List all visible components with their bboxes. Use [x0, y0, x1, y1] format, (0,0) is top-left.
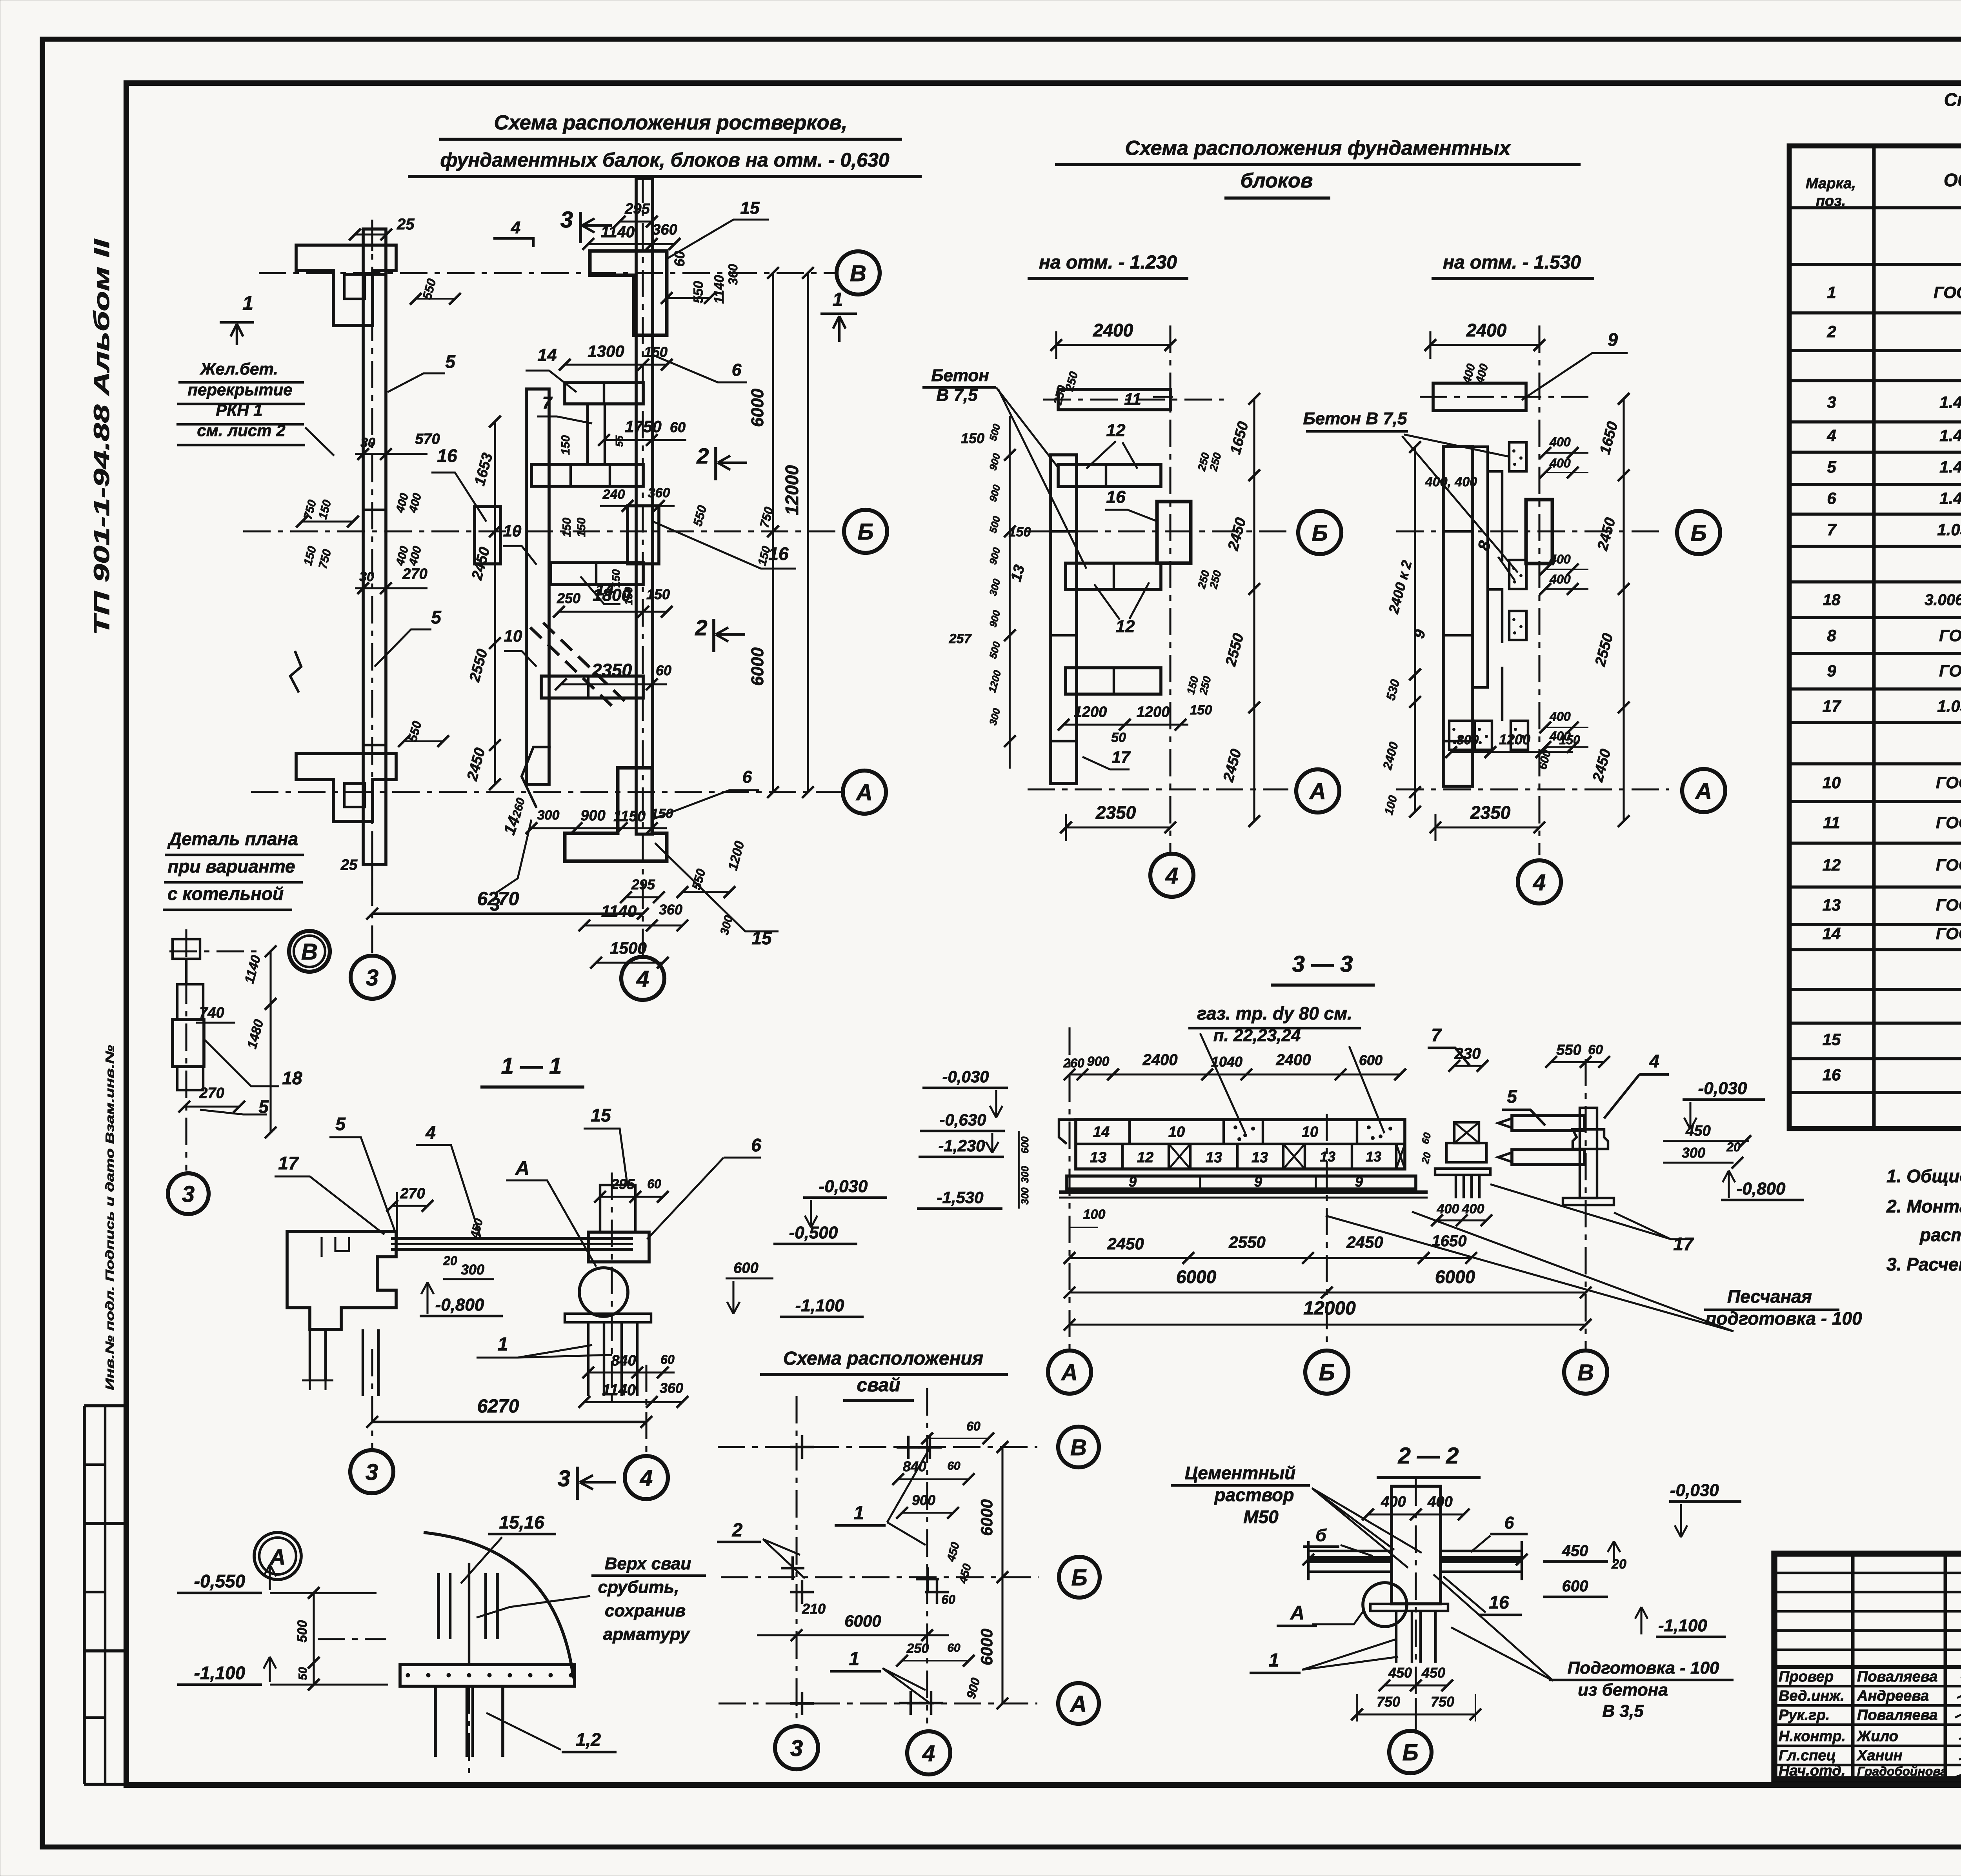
label 10 upper: [503, 546, 537, 565]
svg-text:13: 13: [1252, 1149, 1268, 1166]
svg-text:1: 1: [833, 289, 843, 310]
rostverk 15 top T-shape: [590, 251, 667, 335]
svg-text:600: 600: [1359, 1052, 1383, 1068]
svg-text:6: 6: [742, 767, 752, 787]
svg-text:Бетон: Бетон: [931, 366, 989, 385]
plan1 left strip: [1051, 455, 1077, 783]
svg-text:1140: 1140: [602, 1382, 636, 1399]
svg-text:60: 60: [966, 1419, 980, 1433]
svg-text:Жел.бет.: Жел.бет.: [200, 360, 278, 378]
plan2 dim 2400: [1430, 344, 1539, 346]
svg-text:1200: 1200: [1499, 731, 1530, 747]
1-1 dims 295/60: [600, 1196, 663, 1198]
svg-text:на отм. - 1.230: на отм. - 1.230: [1039, 252, 1177, 273]
svg-text:3: 3: [560, 207, 573, 233]
break mark on left wall: [290, 651, 301, 693]
svg-text:Бетон В 7,5: Бетон В 7,5: [1303, 409, 1407, 428]
svg-text:А: А: [855, 780, 873, 805]
svg-text:-1,100: -1,100: [194, 1663, 246, 1683]
svg-text:ГОСТ 13579 - 78*: ГОСТ 13579 - 78*: [1936, 856, 1961, 874]
svg-text:2350: 2350: [1095, 802, 1136, 823]
svg-text:4: 4: [1649, 1051, 1659, 1071]
svg-text:50: 50: [297, 1667, 309, 1680]
svg-text:Гл.спец: Гл.спец: [1779, 1747, 1836, 1764]
svg-text:1.415 - 1, вып. 1: 1.415 - 1, вып. 1: [1939, 458, 1961, 476]
svg-text:7: 7: [1827, 520, 1837, 539]
label 6 right: [653, 355, 747, 382]
svg-text:25: 25: [397, 216, 415, 233]
svg-text:6: 6: [1504, 1513, 1514, 1532]
svg-text:ГОСТ 13580 - 85: ГОСТ 13580 - 85: [1939, 626, 1961, 645]
pier1 label 7: [1428, 1048, 1470, 1066]
svg-text:300: 300: [1682, 1145, 1705, 1161]
svg-text:60: 60: [947, 1460, 960, 1472]
title block upper small rows (left): [1774, 1572, 1961, 1574]
svg-text:300: 300: [461, 1262, 484, 1278]
grid line V: [259, 272, 835, 274]
label 14: [526, 371, 577, 392]
svg-text:3: 3: [558, 1466, 570, 1491]
plan2 circle 4: [1518, 860, 1561, 903]
pile plan grid V: [718, 1446, 1037, 1448]
svg-text:-1,100: -1,100: [1658, 1616, 1707, 1635]
svg-text:1200: 1200: [1137, 704, 1170, 720]
plan2 right dim chain: [1623, 399, 1624, 821]
3-3 left end hook: [1059, 1120, 1076, 1144]
svg-text:18: 18: [282, 1068, 302, 1088]
pier2 labels 5 and 4: [1502, 1110, 1545, 1125]
svg-text:12: 12: [1116, 617, 1135, 636]
label 14 bottom: [522, 747, 551, 808]
3-3 top row cells: [1128, 1120, 1131, 1144]
detail circle V: [289, 931, 330, 972]
svg-text:10: 10: [1823, 773, 1841, 792]
labels 5: [387, 373, 445, 392]
plan1 circle A: [1296, 769, 1339, 813]
plan2 left chain: [1414, 447, 1416, 812]
svg-text:230: 230: [1454, 1045, 1481, 1062]
svg-text:740: 740: [199, 1005, 224, 1021]
svg-text:1: 1: [498, 1334, 508, 1355]
detail axis: [185, 929, 187, 1171]
svg-text:из бетона: из бетона: [1578, 1680, 1668, 1700]
svg-text:1: 1: [1269, 1650, 1279, 1671]
svg-text:600: 600: [1562, 1578, 1588, 1595]
svg-text:20: 20: [443, 1254, 457, 1268]
svg-text:150: 150: [559, 435, 572, 455]
label 15 bottom: [655, 843, 779, 931]
svg-text:18: 18: [1823, 591, 1841, 609]
detail blocks: [173, 939, 200, 959]
svg-text:5: 5: [1827, 458, 1836, 476]
svg-text:А: А: [1070, 1691, 1087, 1717]
1-1 label 1: [477, 1345, 612, 1358]
svg-text:ГОСТ 13579 - 78*: ГОСТ 13579 - 78*: [1936, 813, 1961, 832]
svg-text:10: 10: [503, 522, 522, 540]
svg-text:7: 7: [542, 393, 553, 413]
svg-text:12000: 12000: [1303, 1298, 1356, 1319]
axis circle 4: [621, 957, 664, 1000]
svg-text:-0,630: -0,630: [939, 1111, 986, 1129]
svg-text:5: 5: [258, 1096, 269, 1117]
plan2 block right: [1526, 500, 1552, 564]
svg-text:800: 800: [1457, 733, 1479, 747]
piles below slab: [434, 1686, 437, 1757]
svg-text:Инв.№ подл. Подпись и дато В: Инв.№ подл. Подпись и дато Взам.инв.№: [104, 1045, 116, 1390]
cut arc: [424, 1532, 573, 1678]
svg-text:6000: 6000: [748, 647, 767, 686]
svg-text:3 — 3: 3 — 3: [1292, 951, 1353, 977]
svg-text:15: 15: [591, 1105, 611, 1125]
svg-text:Н.контр.: Н.контр.: [1779, 1728, 1846, 1745]
svg-text:4: 4: [425, 1122, 436, 1143]
svg-text:2: 2: [696, 444, 709, 468]
svg-text:400: 400: [1549, 572, 1571, 586]
margin cell boxes: [84, 1404, 126, 1407]
axis circle 3: [351, 956, 394, 999]
svg-text:10: 10: [504, 627, 522, 645]
pile plan axis 3: [795, 1396, 797, 1721]
plan2 label 9: [1522, 353, 1628, 400]
svg-text:900: 900: [1087, 1054, 1110, 1069]
svg-text:360: 360: [648, 485, 670, 500]
svg-text:6000: 6000: [748, 389, 767, 427]
svg-text:400: 400: [1549, 709, 1571, 723]
label 6 lower: [652, 790, 759, 820]
svg-text:15: 15: [740, 198, 760, 218]
svg-text:Ханин: Ханин: [1856, 1747, 1903, 1764]
dotted cell marks: [1234, 1126, 1237, 1129]
svg-text:750: 750: [1377, 1694, 1400, 1710]
plan2 circle A: [1682, 769, 1725, 812]
svg-text:550: 550: [1556, 1042, 1581, 1058]
svg-text:1: 1: [849, 1649, 860, 1669]
vertical dim 500/50: [313, 1593, 315, 1685]
pile plan circle 3: [775, 1726, 818, 1769]
svg-text:260: 260: [1063, 1056, 1084, 1070]
svg-text:1 — 1: 1 — 1: [501, 1053, 562, 1079]
svg-text:Градобойнова: Градобойнова: [1857, 1764, 1947, 1778]
axis-4 wall: [636, 178, 653, 834]
svg-text:2400: 2400: [1142, 1051, 1178, 1069]
svg-text:Жило: Жило: [1856, 1728, 1898, 1745]
svg-text:3: 3: [182, 1182, 195, 1207]
svg-text:Деталь плана: Деталь плана: [167, 829, 298, 849]
svg-text:1750: 1750: [625, 417, 661, 436]
svg-text:60: 60: [656, 662, 671, 678]
svg-text:2 — 2: 2 — 2: [1398, 1443, 1459, 1469]
svg-text:А: А: [1290, 1602, 1304, 1624]
svg-text:30: 30: [359, 569, 374, 584]
svg-text:4: 4: [1826, 426, 1836, 445]
svg-text:6000: 6000: [1176, 1267, 1217, 1287]
svg-text:750: 750: [1431, 1694, 1454, 1710]
svg-text:-0,550: -0,550: [194, 1571, 246, 1591]
svg-text:1500: 1500: [610, 939, 646, 957]
svg-text:295: 295: [611, 1176, 635, 1192]
svg-text:14: 14: [1823, 924, 1841, 943]
svg-text:11: 11: [1124, 390, 1141, 408]
1-1 labels: [275, 1176, 384, 1234]
pile base slab: [400, 1665, 575, 1686]
svg-text:9: 9: [1129, 1174, 1137, 1190]
pile plan circle 4: [907, 1731, 950, 1774]
svg-text:10: 10: [1168, 1124, 1185, 1140]
svg-text:16: 16: [437, 445, 457, 466]
svg-text:2350: 2350: [1470, 802, 1511, 823]
diagonal dashed braces: [530, 627, 612, 706]
spec table grid: [1789, 146, 1961, 1129]
3-3 axis B: [1326, 1114, 1328, 1349]
svg-text:60: 60: [947, 1641, 960, 1654]
svg-text:В: В: [1070, 1435, 1087, 1460]
svg-text:250: 250: [906, 1641, 929, 1656]
svg-text:2: 2: [695, 615, 707, 640]
svg-text:1: 1: [242, 292, 253, 314]
svg-text:2: 2: [732, 1520, 743, 1541]
dim 2350/60: [561, 683, 667, 685]
svg-text:2400: 2400: [1276, 1051, 1311, 1069]
svg-text:17: 17: [1112, 748, 1131, 766]
svg-text:б: б: [1315, 1526, 1327, 1545]
1-1 right assembly: [600, 1185, 635, 1232]
grid line B: [243, 530, 842, 532]
plan -1.530 grid A: [1396, 788, 1669, 790]
svg-text:арматуру: арматуру: [603, 1625, 691, 1644]
detail second circle ring: [294, 936, 325, 967]
3-3 block band: [1076, 1120, 1405, 1169]
svg-text:17: 17: [1673, 1234, 1694, 1254]
svg-text:А: А: [1309, 779, 1326, 804]
svg-text:-0,500: -0,500: [789, 1223, 838, 1242]
3-3 pier 1: [1454, 1122, 1479, 1143]
svg-text:2400: 2400: [1466, 320, 1507, 340]
svg-text:1.415 - 1, вып. 1: 1.415 - 1, вып. 1: [1939, 426, 1961, 445]
title block outer: [1774, 1554, 1961, 1779]
svg-text:150: 150: [1009, 525, 1031, 540]
svg-text:1140: 1140: [601, 224, 635, 241]
svg-text:3: 3: [366, 1460, 378, 1485]
svg-text:-0,030: -0,030: [1698, 1079, 1747, 1098]
plan2 circle B: [1677, 511, 1720, 554]
svg-text:поз.: поз.: [1816, 193, 1846, 209]
svg-text:15,16: 15,16: [499, 1512, 544, 1532]
plan1 right dim chain: [1253, 399, 1255, 821]
plan2 top bar: [1433, 383, 1526, 411]
svg-text:1.415 - 1, вып. 1: 1.415 - 1, вып. 1: [1939, 489, 1961, 507]
3-3 top dim chain: [1070, 1073, 1400, 1075]
3-3 leaders from gas label: [1200, 1033, 1384, 1133]
svg-text:-1,100: -1,100: [795, 1296, 844, 1315]
svg-text:450: 450: [1421, 1665, 1445, 1681]
svg-text:11: 11: [1823, 813, 1840, 832]
svg-text:Поваляева: Поваляева: [1857, 1707, 1937, 1723]
svg-text:270: 270: [402, 566, 427, 582]
svg-text:2400: 2400: [1093, 320, 1133, 340]
svg-text:ГОСТ 19804.1-79*: ГОСТ 19804.1-79*: [1934, 283, 1961, 302]
svg-text:570: 570: [415, 431, 440, 447]
plan1 dims 1200/1200/150: [1064, 723, 1188, 725]
svg-text:400: 400: [1549, 456, 1571, 470]
svg-text:В 3,5: В 3,5: [1602, 1701, 1644, 1721]
pile plan circle A: [1058, 1683, 1099, 1724]
svg-text:1.038.1-1, вып. 1: 1.038.1-1, вып. 1: [1937, 520, 1961, 539]
svg-text:450: 450: [1562, 1542, 1588, 1560]
svg-text:фундаментных балок, блоков: фундаментных балок, блоков на отм. - 0,6…: [440, 149, 889, 171]
svg-text:1140: 1140: [601, 902, 637, 920]
svg-text:Цементный: Цементный: [1185, 1463, 1296, 1483]
svg-text:12: 12: [1137, 1149, 1153, 1166]
label 16 upper: [431, 473, 486, 522]
svg-text:13: 13: [1090, 1149, 1106, 1166]
svg-text:240: 240: [602, 487, 625, 502]
svg-text:1150: 1150: [613, 808, 646, 825]
grid line A: [251, 791, 841, 793]
svg-text:12: 12: [1823, 856, 1841, 874]
svg-text:подготовка - 100: подготовка - 100: [1705, 1308, 1862, 1329]
svg-text:6: 6: [732, 360, 742, 380]
svg-text:Верх сваи: Верх сваи: [605, 1554, 691, 1573]
plan1 top bar 11: [1058, 389, 1170, 410]
pile marks: [790, 1446, 814, 1448]
plan2 dims 400/400 stacks: [1545, 452, 1588, 454]
svg-text:150: 150: [644, 344, 668, 360]
svg-text:100: 100: [1083, 1207, 1106, 1222]
plan2 bracket shape: [1488, 471, 1502, 721]
svg-text:-0,030: -0,030: [819, 1177, 868, 1196]
svg-text:150: 150: [575, 518, 588, 537]
svg-text:с котельной: с котельной: [167, 883, 284, 904]
central found strip: [527, 389, 549, 784]
svg-text:3.006.1-2/82 вып. 1-2: 3.006.1-2/82 вып. 1-2: [1925, 591, 1961, 609]
svg-text:на отм. - 1.530: на отм. - 1.530: [1443, 252, 1581, 273]
svg-text:360: 360: [726, 264, 740, 285]
svg-text:9: 9: [1608, 329, 1618, 350]
svg-text:15: 15: [1823, 1030, 1841, 1049]
svg-text:ТП 901-1-94.88 Альбом II: ТП 901-1-94.88 Альбом II: [89, 238, 114, 635]
svg-text:6000: 6000: [977, 1499, 996, 1536]
svg-text:17: 17: [1823, 697, 1841, 715]
svg-text:400: 400: [1437, 1202, 1459, 1216]
svg-text:2: 2: [1826, 322, 1836, 341]
svg-text:150: 150: [961, 430, 984, 446]
svg-text:Б: Б: [1312, 520, 1328, 546]
svg-text:270: 270: [199, 1085, 224, 1102]
svg-text:4: 4: [1533, 870, 1546, 895]
svg-text:3: 3: [366, 965, 378, 991]
svg-text:5: 5: [1507, 1086, 1517, 1107]
svg-text:4: 4: [636, 966, 649, 992]
svg-text:1. Общие примечания смотре: 1. Общие примечания смотреть лист 1: [1886, 1166, 1961, 1186]
svg-text:15: 15: [751, 928, 772, 948]
svg-text:400, 400: 400, 400: [1425, 474, 1477, 489]
svg-text:-0,030: -0,030: [942, 1067, 989, 1086]
pile plan circle V: [1058, 1427, 1099, 1467]
svg-text:13: 13: [1206, 1149, 1222, 1166]
detail circle A: [254, 1532, 301, 1580]
svg-text:Б: Б: [1319, 1360, 1335, 1385]
svg-text:Вед.инж.: Вед.инж.: [1779, 1688, 1845, 1704]
dim 1300/150: [565, 364, 667, 365]
svg-text:300: 300: [1019, 1187, 1031, 1205]
svg-text:ГОСТ 13579 - 78*: ГОСТ 13579 - 78*: [1936, 773, 1961, 792]
svg-text:3: 3: [790, 1736, 803, 1761]
3-3 circle A: [1048, 1351, 1091, 1394]
svg-text:Песчаная: Песчаная: [1727, 1286, 1812, 1307]
svg-text:Обозначение: Обозначение: [1944, 170, 1961, 190]
svg-text:-1,530: -1,530: [937, 1188, 983, 1207]
svg-text:13: 13: [1320, 1149, 1335, 1165]
svg-text:6000: 6000: [977, 1629, 996, 1665]
left dim chain 1653/2450/2550/2450: [494, 422, 496, 784]
svg-text:Подготовка - 100: Подготовка - 100: [1568, 1658, 1719, 1678]
svg-text:400: 400: [1549, 552, 1571, 566]
svg-text:5: 5: [335, 1114, 346, 1134]
lintel 7 stub: [588, 404, 605, 464]
svg-text:360: 360: [659, 902, 682, 918]
pier1 400/400: [1437, 1219, 1486, 1221]
pile plan circle B: [1059, 1557, 1100, 1598]
pile plan dims right: [1001, 1447, 1003, 1703]
svg-text:25: 25: [340, 857, 358, 873]
svg-text:9: 9: [1355, 1174, 1363, 1190]
svg-text:Нач.отд.: Нач.отд.: [1779, 1763, 1845, 1779]
2-2 dim 400/400: [1368, 1513, 1464, 1515]
svg-text:Поваляева: Поваляева: [1857, 1669, 1937, 1685]
svg-text:В: В: [301, 939, 318, 965]
svg-text:сохранив: сохранив: [605, 1601, 686, 1620]
dims 300/900/1150/150: [531, 827, 667, 829]
svg-text:п. 22,23,24: п. 22,23,24: [1213, 1026, 1301, 1045]
pile plan 6000 between 3-4: [757, 1634, 949, 1636]
svg-text:360: 360: [652, 222, 677, 238]
dim 6270: [372, 913, 643, 915]
1-1 bottom 6270: [372, 1421, 646, 1423]
svg-text:-0,030: -0,030: [1670, 1481, 1719, 1500]
label 10 lower: [504, 651, 537, 667]
rostverk 15 bottom T-shape: [565, 768, 667, 861]
axis 3 vertical: [371, 220, 373, 954]
svg-text:Б: Б: [1402, 1740, 1418, 1765]
svg-text:Б: Б: [1071, 1565, 1087, 1591]
svg-text:5: 5: [445, 351, 456, 372]
svg-text:6: 6: [1827, 489, 1836, 507]
svg-text:-0,800: -0,800: [1737, 1179, 1786, 1198]
top-left pile cap: [296, 245, 396, 325]
label 4: [493, 238, 533, 247]
pier1 dim 230: [1454, 1065, 1483, 1067]
grid circle V: [837, 251, 880, 294]
svg-text:Марка,: Марка,: [1806, 175, 1856, 192]
dim 1750/60: [604, 439, 686, 441]
axis B small block on wall: [475, 507, 500, 564]
svg-text:6: 6: [751, 1135, 761, 1155]
3-3 axis V: [1584, 1059, 1586, 1349]
2-2 pile assembly: [1392, 1486, 1441, 1604]
pile plan grid A: [719, 1702, 1037, 1704]
dim 30/570: [355, 453, 427, 455]
plan1 dim 2350: [1066, 826, 1170, 828]
svg-text:16: 16: [1823, 1065, 1841, 1084]
plan2 dim 2350: [1435, 826, 1539, 828]
svg-text:4: 4: [640, 1465, 653, 1491]
svg-text:16: 16: [1489, 1592, 1509, 1612]
svg-text:срубить,: срубить,: [598, 1578, 679, 1597]
svg-text:1140: 1140: [712, 275, 727, 304]
pile plan axis 4: [926, 1388, 928, 1723]
svg-text:6270: 6270: [477, 889, 519, 909]
svg-text:150: 150: [1559, 733, 1580, 747]
